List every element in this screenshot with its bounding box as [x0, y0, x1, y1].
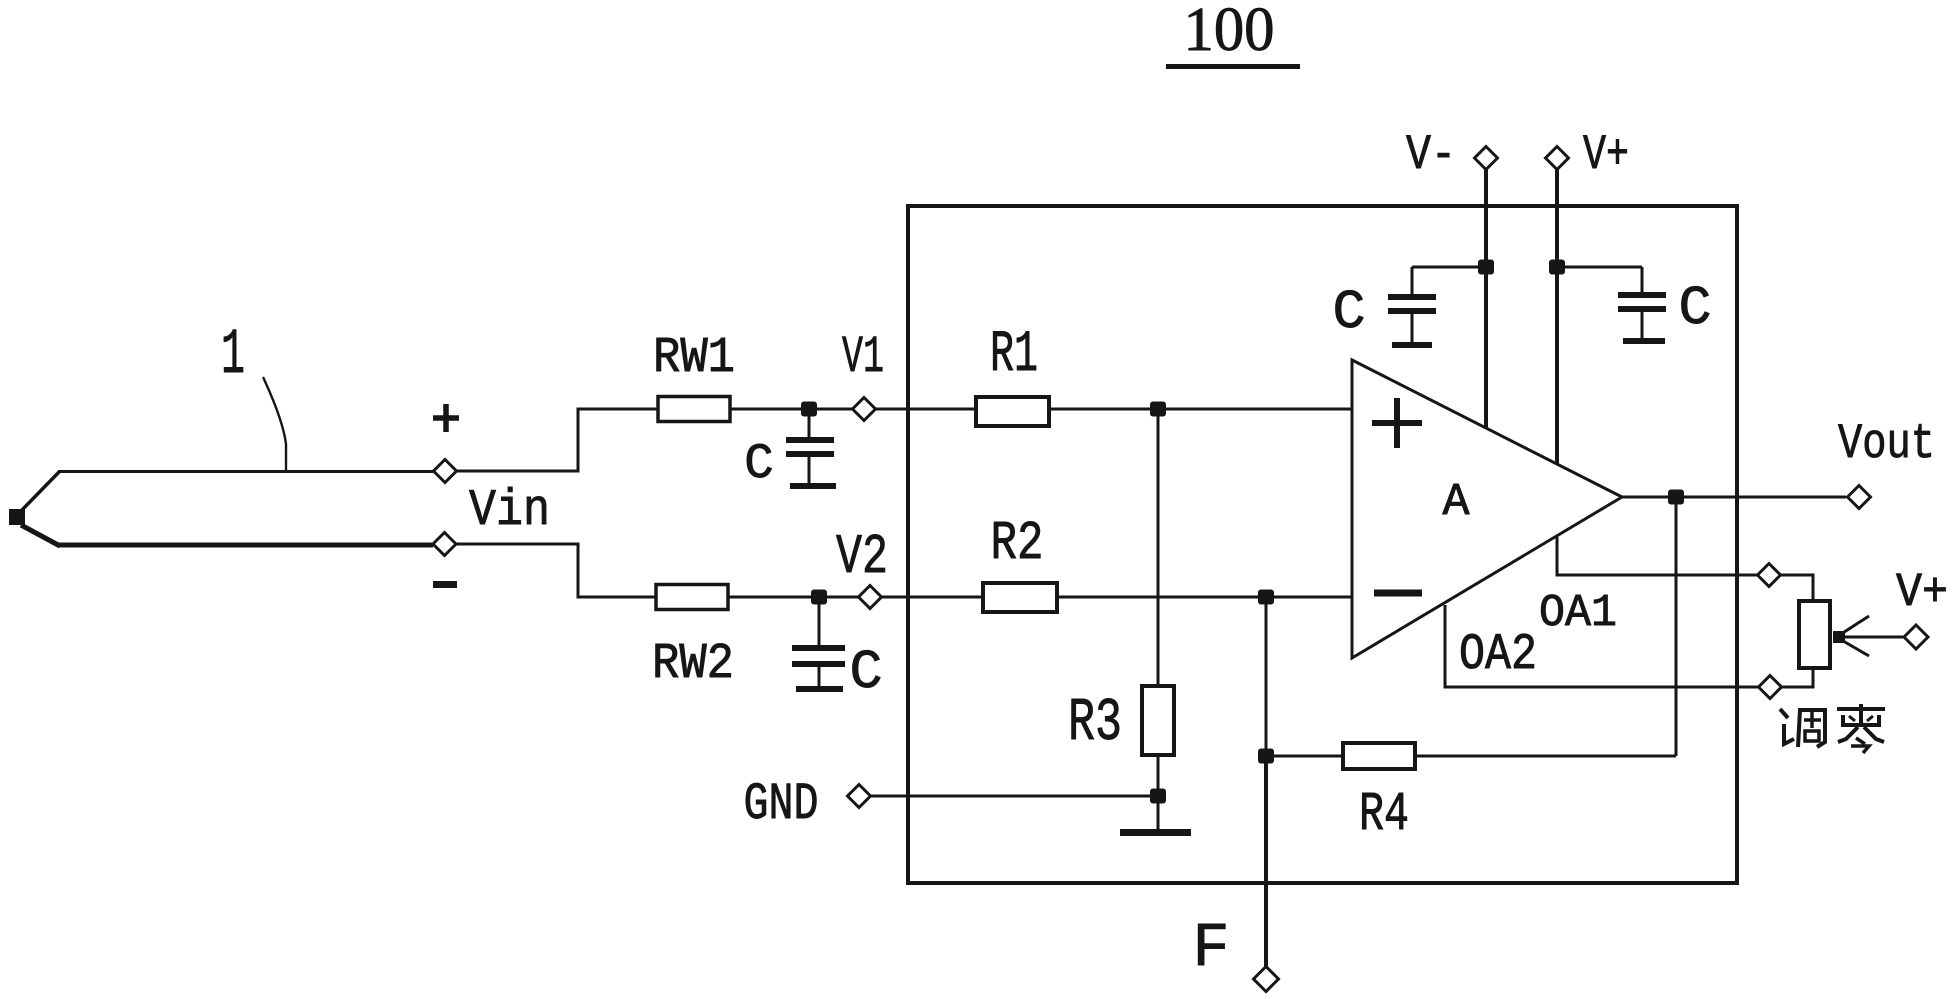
sensor probe 1 body: [9, 471, 433, 546]
terminal V1: [853, 398, 876, 421]
capacitor C1: [786, 416, 836, 486]
label R3: [1068, 690, 1122, 758]
ground symbol: [1120, 796, 1191, 833]
svg-text:1: 1: [221, 320, 245, 392]
label tiaoling (zero adjust) char 2: [1837, 704, 1885, 753]
svg-text:GND: GND: [744, 775, 819, 834]
minus polarity label: [433, 581, 457, 588]
potentiometer body: [1799, 601, 1830, 668]
resistor RW1: [658, 397, 730, 422]
wire OA1 terminal to potentiometer top: [1781, 575, 1814, 602]
label tiaoling (zero adjust) char 1: [1780, 708, 1825, 747]
wire feedback vertical from - input node: [1265, 597, 1268, 756]
label R2: [991, 512, 1044, 575]
resistor R1: [976, 397, 1049, 426]
plus polarity label: [433, 404, 459, 432]
node at R3 top junction: [1150, 402, 1166, 417]
svg-text:V+: V+: [1583, 127, 1629, 183]
wire R3 to GND rail: [1157, 755, 1160, 796]
label RW1: [653, 330, 735, 387]
svg-text:RW1: RW1: [653, 330, 735, 387]
terminal Vin-: [433, 533, 456, 556]
label C of C4: [1678, 277, 1711, 340]
terminal OA2 null: [1759, 676, 1782, 699]
svg-text:R2: R2: [991, 512, 1044, 575]
resistor R4: [1343, 743, 1415, 769]
wire F vertical: [1264, 756, 1268, 967]
reference label 1: [221, 320, 245, 392]
wire V+ supply vertical: [1555, 170, 1559, 465]
wire Vin- to RW2: [456, 544, 656, 597]
label V2: [836, 525, 888, 589]
wire V1 to R1: [876, 408, 977, 411]
svg-text:R1: R1: [990, 323, 1038, 388]
node at C4 tap: [1549, 260, 1565, 275]
svg-text:OA2: OA2: [1459, 627, 1537, 684]
resistor R3: [1142, 686, 1174, 755]
terminal V+: [1546, 147, 1569, 170]
capacitor C3: [1388, 267, 1486, 345]
label C of C3: [1332, 281, 1365, 344]
wire RW2 to V2 terminal: [728, 596, 859, 599]
label V+: [1583, 127, 1629, 183]
wire R3 branch vertical: [1157, 409, 1160, 686]
label RW2: [652, 636, 734, 693]
svg-text:V-: V-: [1406, 127, 1456, 183]
node at C2 tap: [811, 590, 827, 605]
terminal V+ wiper: [1904, 625, 1928, 649]
svg-text:V1: V1: [842, 328, 884, 387]
op-amp A triangle: [1352, 360, 1622, 658]
svg-text:V2: V2: [836, 525, 888, 589]
figure number 100: [1184, 0, 1275, 64]
wire OA2 terminal to potentiometer bottom: [1782, 667, 1814, 687]
terminal V2: [859, 586, 882, 609]
wire V- supply vertical: [1484, 170, 1488, 430]
wire OA1 offset tap: [1557, 537, 1758, 575]
label Vout: [1838, 416, 1935, 472]
label R1: [990, 323, 1038, 388]
label V+ wiper: [1896, 567, 1948, 620]
label GND: [744, 775, 819, 834]
leader line from label 1: [263, 377, 286, 470]
potentiometer wiper arrow: [1833, 616, 1904, 656]
op-amp + input marking: [1372, 398, 1422, 448]
terminal V-: [1475, 147, 1498, 170]
svg-text:C: C: [1678, 277, 1711, 340]
svg-text:C: C: [744, 436, 773, 492]
svg-text:OA1: OA1: [1539, 588, 1617, 639]
wire R1 to op-amp + input: [1049, 408, 1352, 411]
svg-text:RW2: RW2: [652, 636, 734, 693]
resistor R2: [983, 583, 1057, 612]
op-amp - input marking: [1374, 590, 1422, 597]
label A: [1442, 477, 1469, 528]
terminal Vin+: [434, 460, 457, 483]
label R4: [1359, 783, 1409, 846]
label OA1: [1539, 588, 1617, 639]
node at C1 tap: [801, 402, 817, 417]
wire op-amp output: [1622, 496, 1846, 499]
terminal Vout: [1848, 486, 1871, 509]
label Vin: [469, 483, 550, 540]
node at C3 tap: [1478, 260, 1494, 275]
label V-: [1406, 127, 1456, 183]
label C of C2: [849, 641, 882, 704]
label OA2: [1459, 627, 1537, 684]
wire OA2 offset tap: [1445, 605, 1759, 687]
wire V2 to R2: [882, 596, 984, 599]
terminal F: [1254, 967, 1279, 992]
svg-text:V+: V+: [1896, 567, 1948, 620]
IC boundary box: [908, 206, 1737, 883]
svg-text:C: C: [849, 641, 882, 704]
svg-text:Vin: Vin: [469, 483, 550, 540]
node at feedback junction: [1258, 590, 1274, 605]
label C of C1: [744, 436, 773, 492]
resistor RW2: [656, 585, 728, 610]
wire GND terminal to R3 bottom: [871, 795, 1159, 798]
node at R4 junction: [1258, 749, 1274, 764]
svg-text:R3: R3: [1068, 690, 1122, 758]
figure number underline: [1166, 64, 1300, 69]
terminal OA1 null: [1758, 564, 1781, 587]
wire node to R4: [1266, 755, 1343, 758]
wire R2 to op-amp - input: [1057, 596, 1352, 599]
svg-text:F: F: [1192, 913, 1229, 984]
node at ground junction: [1150, 789, 1166, 804]
terminal GND: [848, 785, 871, 808]
label F: [1192, 913, 1229, 984]
svg-text:A: A: [1442, 477, 1469, 528]
svg-text:C: C: [1332, 281, 1365, 344]
capacitor C2: [792, 604, 845, 689]
svg-text:100: 100: [1184, 0, 1275, 64]
wire RW1 to V1 terminal: [730, 408, 852, 411]
node at output junction: [1668, 490, 1684, 505]
wire Vin+ to RW1: [457, 409, 659, 471]
svg-text:R4: R4: [1359, 783, 1409, 846]
label V1: [842, 328, 884, 387]
wire R4 to output vertical: [1415, 755, 1676, 758]
svg-text:Vout: Vout: [1838, 416, 1935, 472]
capacitor C4: [1557, 267, 1666, 341]
wire output vertical: [1675, 497, 1678, 756]
